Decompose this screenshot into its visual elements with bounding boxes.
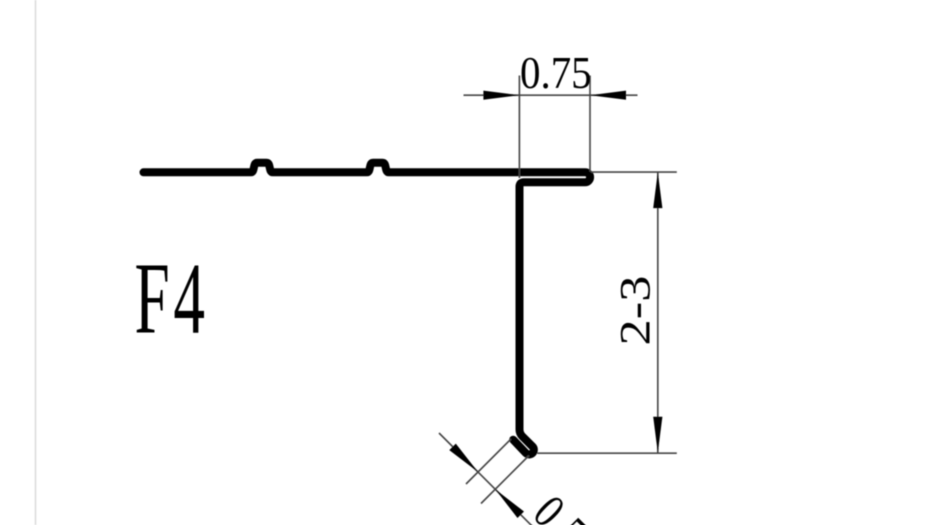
diag extension line 2 xyxy=(481,456,529,504)
svg-text:2-3: 2-3 xyxy=(612,276,660,346)
arrow right (0.75) xyxy=(590,91,626,100)
diag arrow upper xyxy=(449,444,478,472)
svg-text:0.75: 0.75 xyxy=(520,48,592,99)
extension line top (2-3) xyxy=(591,171,677,173)
extension line bottom (2-3) xyxy=(537,452,677,454)
arrow down (2-3) xyxy=(653,417,662,453)
extension line left (0.75) xyxy=(518,76,520,179)
diag arrow lower xyxy=(495,489,524,518)
extension line right (0.75) xyxy=(589,76,591,172)
dimension line (0.75) xyxy=(464,94,638,96)
diag dimension line xyxy=(439,433,495,489)
dimension line (2-3) xyxy=(657,172,659,453)
page margin rule xyxy=(35,0,37,525)
svg-text:F4: F4 xyxy=(135,242,209,355)
svg-text:0: 0 xyxy=(523,485,575,525)
diag extension line 1 xyxy=(466,439,511,484)
arrow up (2-3) xyxy=(653,172,662,208)
arrow left (0.75) xyxy=(483,91,519,100)
profile F4 outline xyxy=(144,163,591,455)
